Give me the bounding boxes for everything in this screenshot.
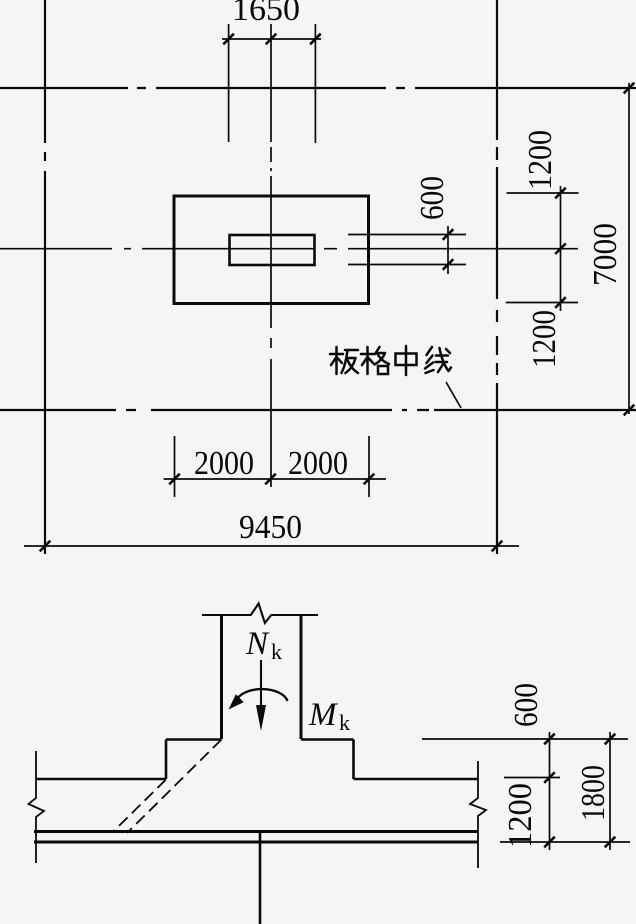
svg-text:1200: 1200 (502, 783, 539, 848)
section axis line below (259, 833, 262, 924)
grid line horizontal bottom (axis B) (0, 409, 636, 411)
section dimension 600/1200 line (549, 732, 551, 850)
dimension 1650: dimension line (222, 38, 321, 40)
grid line horizontal top (axis A) (0, 87, 636, 89)
slab top right (354, 778, 479, 781)
dashed punching line from pedestal edge (114, 780, 166, 832)
dimension 7000: ticks (624, 83, 635, 416)
svg-text:1200: 1200 (522, 130, 559, 190)
dimension 9450: ticks (40, 541, 503, 552)
column inner rectangle (plan) (230, 235, 315, 265)
svg-text:7000: 7000 (587, 223, 624, 286)
svg-text:k: k (271, 639, 282, 664)
moment arc M (237, 689, 288, 701)
dimension 9450: dimension line (24, 545, 519, 547)
section dim 600/1200 ticks (544, 734, 555, 848)
section dim: extension line middle (slab top level) (504, 777, 560, 779)
dimension 1650: extension line right (314, 24, 316, 143)
svg-text:1200: 1200 (526, 310, 563, 368)
force arrow N stem (260, 660, 262, 712)
dimension 1200 plan: extension line top (507, 192, 579, 194)
svg-text:600: 600 (508, 683, 545, 727)
grid line vertical right (axis 2) (496, 0, 498, 554)
char 中 (396, 346, 417, 375)
column right edge (section) (300, 615, 303, 739)
svg-text:9450: 9450 (239, 509, 302, 546)
dimension 1200 plan: ticks (555, 188, 566, 308)
char 线 (425, 347, 451, 373)
pedestal right side (352, 740, 355, 780)
grid line vertical left (axis 1) (44, 0, 46, 554)
char 格 (361, 347, 389, 374)
footing outer rectangle (plan) (174, 196, 369, 304)
arrowhead of moment arc (229, 694, 244, 709)
dimension 600 plan: dimension line (447, 226, 449, 274)
dimension 2000: ticks (169, 474, 374, 485)
dashed punching line from column edge (127, 740, 222, 834)
column top break line with zigzag (202, 604, 318, 624)
dimension 2000: dimension line (164, 478, 386, 480)
svg-text:N: N (245, 626, 270, 662)
horizontal centerline (plan) (0, 248, 578, 250)
pedestal top right (section) (301, 738, 354, 741)
Chinese label 板格中线 (hand-drawn strokes) (330, 346, 451, 375)
dimension 2000: extension line right (368, 436, 370, 497)
svg-text:600: 600 (414, 176, 451, 220)
svg-text:2000: 2000 (288, 445, 348, 482)
char 板 (330, 347, 358, 374)
section dim 1800 ticks (605, 734, 616, 848)
dimension 600 plan: extension lines (348, 235, 466, 265)
pedestal top left (section) (166, 738, 222, 741)
slab bottom thick line (34, 830, 478, 833)
dimension 2000: extension line left (174, 436, 176, 497)
dimension 1650: ticks (223, 34, 320, 45)
section dim: extension line top (pedestal top level) (422, 738, 628, 740)
svg-text:k: k (339, 710, 350, 735)
cushion bottom thick line (34, 841, 478, 844)
leader line for label (446, 382, 461, 408)
section dimension 1800 line (609, 732, 611, 850)
dimension 1200 plan: extension line bottom (506, 302, 578, 304)
section dim: extension line bottom (500, 841, 630, 843)
dimension 600 plan: ticks (443, 229, 454, 270)
svg-text:1800: 1800 (575, 765, 612, 821)
svg-text:1650: 1650 (232, 0, 300, 28)
dimension 1200 plan: dimension line (560, 186, 562, 311)
slab top left (36, 778, 166, 781)
vertical centerline of column (plan) (270, 24, 272, 487)
arrowhead of force N (256, 705, 266, 731)
dimension 7000: dimension line (628, 83, 630, 414)
pedestal left side (165, 740, 168, 780)
column left edge (section) (220, 615, 223, 739)
svg-text:2000: 2000 (194, 445, 254, 482)
left break edge with zigzag (29, 751, 45, 863)
svg-text:M: M (308, 697, 338, 733)
right break edge with zigzag (470, 761, 486, 868)
dimension 1650: extension line left (228, 24, 230, 142)
